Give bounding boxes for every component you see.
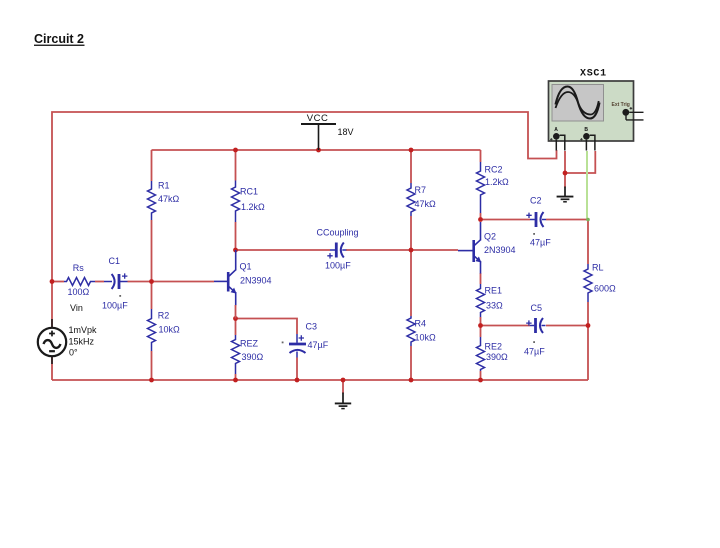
svg-text:RL: RL [592, 263, 604, 273]
svg-text:C5: C5 [531, 303, 543, 313]
wire R7 to Q2 base node [410, 216, 412, 250]
svg-text:R1: R1 [158, 180, 170, 190]
svg-text:10kΩ: 10kΩ [415, 333, 437, 343]
node Q2 base / R7-R4 [409, 248, 414, 253]
svg-text:47µF: 47µF [530, 238, 551, 248]
svg-text:CCoupling: CCoupling [317, 227, 359, 237]
wire C2 to RL top [546, 220, 588, 265]
resistor RE2 [477, 337, 509, 371]
transistor Q2 2N3904 [458, 222, 516, 274]
svg-text:33Ω: 33Ω [486, 301, 503, 311]
capacitor C3 [282, 321, 329, 357]
svg-text:1.2kΩ: 1.2kΩ [485, 177, 509, 187]
wire RC1 to Q1 collector node [235, 222, 237, 250]
ground (bottom center) [335, 393, 351, 409]
svg-text:C2: C2 [530, 196, 542, 206]
resistor RC1 [232, 181, 266, 223]
svg-text:Q2: Q2 [484, 232, 496, 242]
node rail-RC1 [233, 148, 238, 153]
svg-text:R4: R4 [415, 319, 427, 329]
wire input node to R2 [151, 282, 153, 310]
svg-text:0°: 0° [69, 347, 78, 357]
wire ground stem (bottom) [342, 380, 344, 394]
node Q2 collector [478, 217, 483, 222]
svg-text:C3: C3 [306, 321, 318, 331]
node input at source [50, 279, 55, 284]
svg-text:47µF: 47µF [308, 340, 329, 350]
svg-text:390Ω: 390Ω [242, 352, 264, 362]
svg-text:Ext Trig: Ext Trig [612, 102, 630, 108]
title Circuit 2 [34, 32, 85, 46]
svg-text:1mVpk: 1mVpk [69, 325, 98, 335]
svg-text:R2: R2 [158, 310, 170, 320]
svg-text:2N3904: 2N3904 [240, 276, 272, 286]
svg-text:RC2: RC2 [485, 165, 503, 175]
svg-text:REZ: REZ [240, 338, 259, 348]
wire R1 to input node [151, 220, 153, 282]
wire RE1/RE2 node to C5 [481, 325, 531, 327]
node rail-REZ [233, 378, 238, 383]
svg-text:10kΩ: 10kΩ [159, 325, 181, 335]
resistor R7 [407, 183, 436, 216]
wire C5 to RL line [546, 325, 588, 327]
resistor Rs [64, 263, 95, 297]
node rail-R7 [409, 148, 414, 153]
svg-text:1.2kΩ: 1.2kΩ [241, 202, 265, 212]
oscilloscope XSC1 [549, 69, 644, 151]
node Q1 collector [233, 248, 238, 253]
wire REZ top [235, 319, 237, 336]
svg-text:Q1: Q1 [240, 261, 252, 271]
node C5-RL [586, 323, 591, 328]
wire R4 to ground rail [410, 346, 412, 380]
node RE1-RE2-C5 [478, 323, 483, 328]
svg-text:Circuit 2: Circuit 2 [34, 32, 84, 46]
resistor RC2 [477, 162, 510, 213]
wire scope A minus pin down [564, 151, 566, 173]
wire source minus to ground rail [51, 357, 53, 380]
wire Rs to C1 [95, 281, 104, 283]
transistor Q1 2N3904 [214, 250, 272, 306]
ground (oscilloscope) [557, 187, 574, 202]
svg-text:RC1: RC1 [240, 187, 258, 197]
node Q1 emitter [233, 316, 238, 321]
wire Q1 emitter lead [235, 305, 237, 319]
svg-text:R7: R7 [415, 185, 427, 195]
wire C5 node to RE2 [480, 326, 482, 338]
svg-text:A: A [554, 127, 558, 133]
wire Q2 collector node to C2 [481, 219, 531, 221]
node scope ground junction [563, 171, 568, 176]
ext trig terminal [622, 109, 629, 116]
wire C1 to Q1 base (node with R1/R2) [128, 281, 215, 283]
wire scope ground junction to B minus pin [565, 151, 595, 173]
svg-text:B: B [584, 127, 588, 133]
wire rail to R7 [410, 150, 412, 183]
wire C3 to ground rail [296, 358, 298, 381]
wire Q2 base node to R4 [410, 250, 412, 316]
wire source plus to input node [51, 282, 53, 328]
wire ground rail [52, 379, 588, 381]
resistor R2 [148, 309, 181, 351]
wire RC2 to Q2 collector node [480, 213, 482, 220]
svg-text:47µF: 47µF [524, 347, 545, 357]
svg-text:100µF: 100µF [102, 300, 128, 310]
wire input node to oscilloscope channel A (top border) [52, 112, 557, 282]
wire rail to RC2 [480, 150, 482, 162]
wire scope channel B to output node (green) [586, 151, 588, 219]
wire scope ground stem [564, 173, 566, 188]
wire Q1 collector node to CCoupling [236, 249, 331, 251]
wire CCoupling to R7/R4 node and Q2 base [346, 249, 458, 251]
svg-text:18V: 18V [338, 127, 354, 137]
capacitor C2 [526, 196, 551, 248]
node output green-red junction [586, 218, 590, 222]
wire RL bottom to ground rail [587, 302, 589, 380]
wire REZ bottom to ground rail [235, 374, 237, 380]
svg-text:47kΩ: 47kΩ [158, 194, 180, 204]
svg-text:C1: C1 [109, 256, 121, 266]
ac source Vin 1mVpk 15kHz [38, 319, 97, 364]
node rail-VCC [316, 148, 321, 153]
node rail-ground [341, 378, 346, 383]
wire VCC top rail [152, 149, 481, 151]
resistor RL [584, 263, 616, 303]
wire RE1 to C5 node [480, 317, 482, 326]
wire rail to RC1 [235, 150, 237, 181]
power supply VCC 18V [301, 113, 354, 150]
wire Q1 emitter node to C3 [236, 319, 298, 335]
capacitor CCoupling [317, 227, 359, 270]
node rail-R4 [409, 378, 414, 383]
wire input node to Rs [52, 281, 64, 283]
resistor RE1 [477, 284, 504, 317]
svg-text:15kHz: 15kHz [69, 336, 95, 346]
svg-text:VCC: VCC [307, 113, 329, 124]
node rail-RE2 [478, 378, 483, 383]
wire RE2 to ground rail [480, 371, 482, 380]
wire rail to R1 [151, 150, 153, 181]
svg-text:RE2: RE2 [485, 342, 503, 352]
node rail-R2 [149, 378, 154, 383]
svg-text:100µF: 100µF [325, 261, 351, 271]
svg-text:Vin: Vin [70, 303, 83, 313]
node rail-C3 [295, 378, 300, 383]
svg-text:2N3904: 2N3904 [484, 245, 516, 255]
svg-text:RE1: RE1 [485, 286, 503, 296]
resistor R4 [407, 316, 436, 346]
resistor REZ [232, 335, 264, 374]
capacitor C1 [102, 256, 128, 310]
svg-text:600Ω: 600Ω [594, 284, 616, 294]
wire R2 to ground rail [151, 351, 153, 380]
resistor R1 [148, 180, 180, 220]
node Q1 base divider [149, 279, 154, 284]
svg-text:100Ω: 100Ω [68, 287, 90, 297]
svg-text:XSC1: XSC1 [580, 69, 607, 80]
capacitor C5 [524, 303, 546, 357]
svg-text:Rs: Rs [73, 263, 84, 273]
wire Q2 emitter to RE1 [480, 273, 482, 284]
svg-text:390Ω: 390Ω [486, 352, 508, 362]
svg-text:47kΩ: 47kΩ [415, 199, 437, 209]
